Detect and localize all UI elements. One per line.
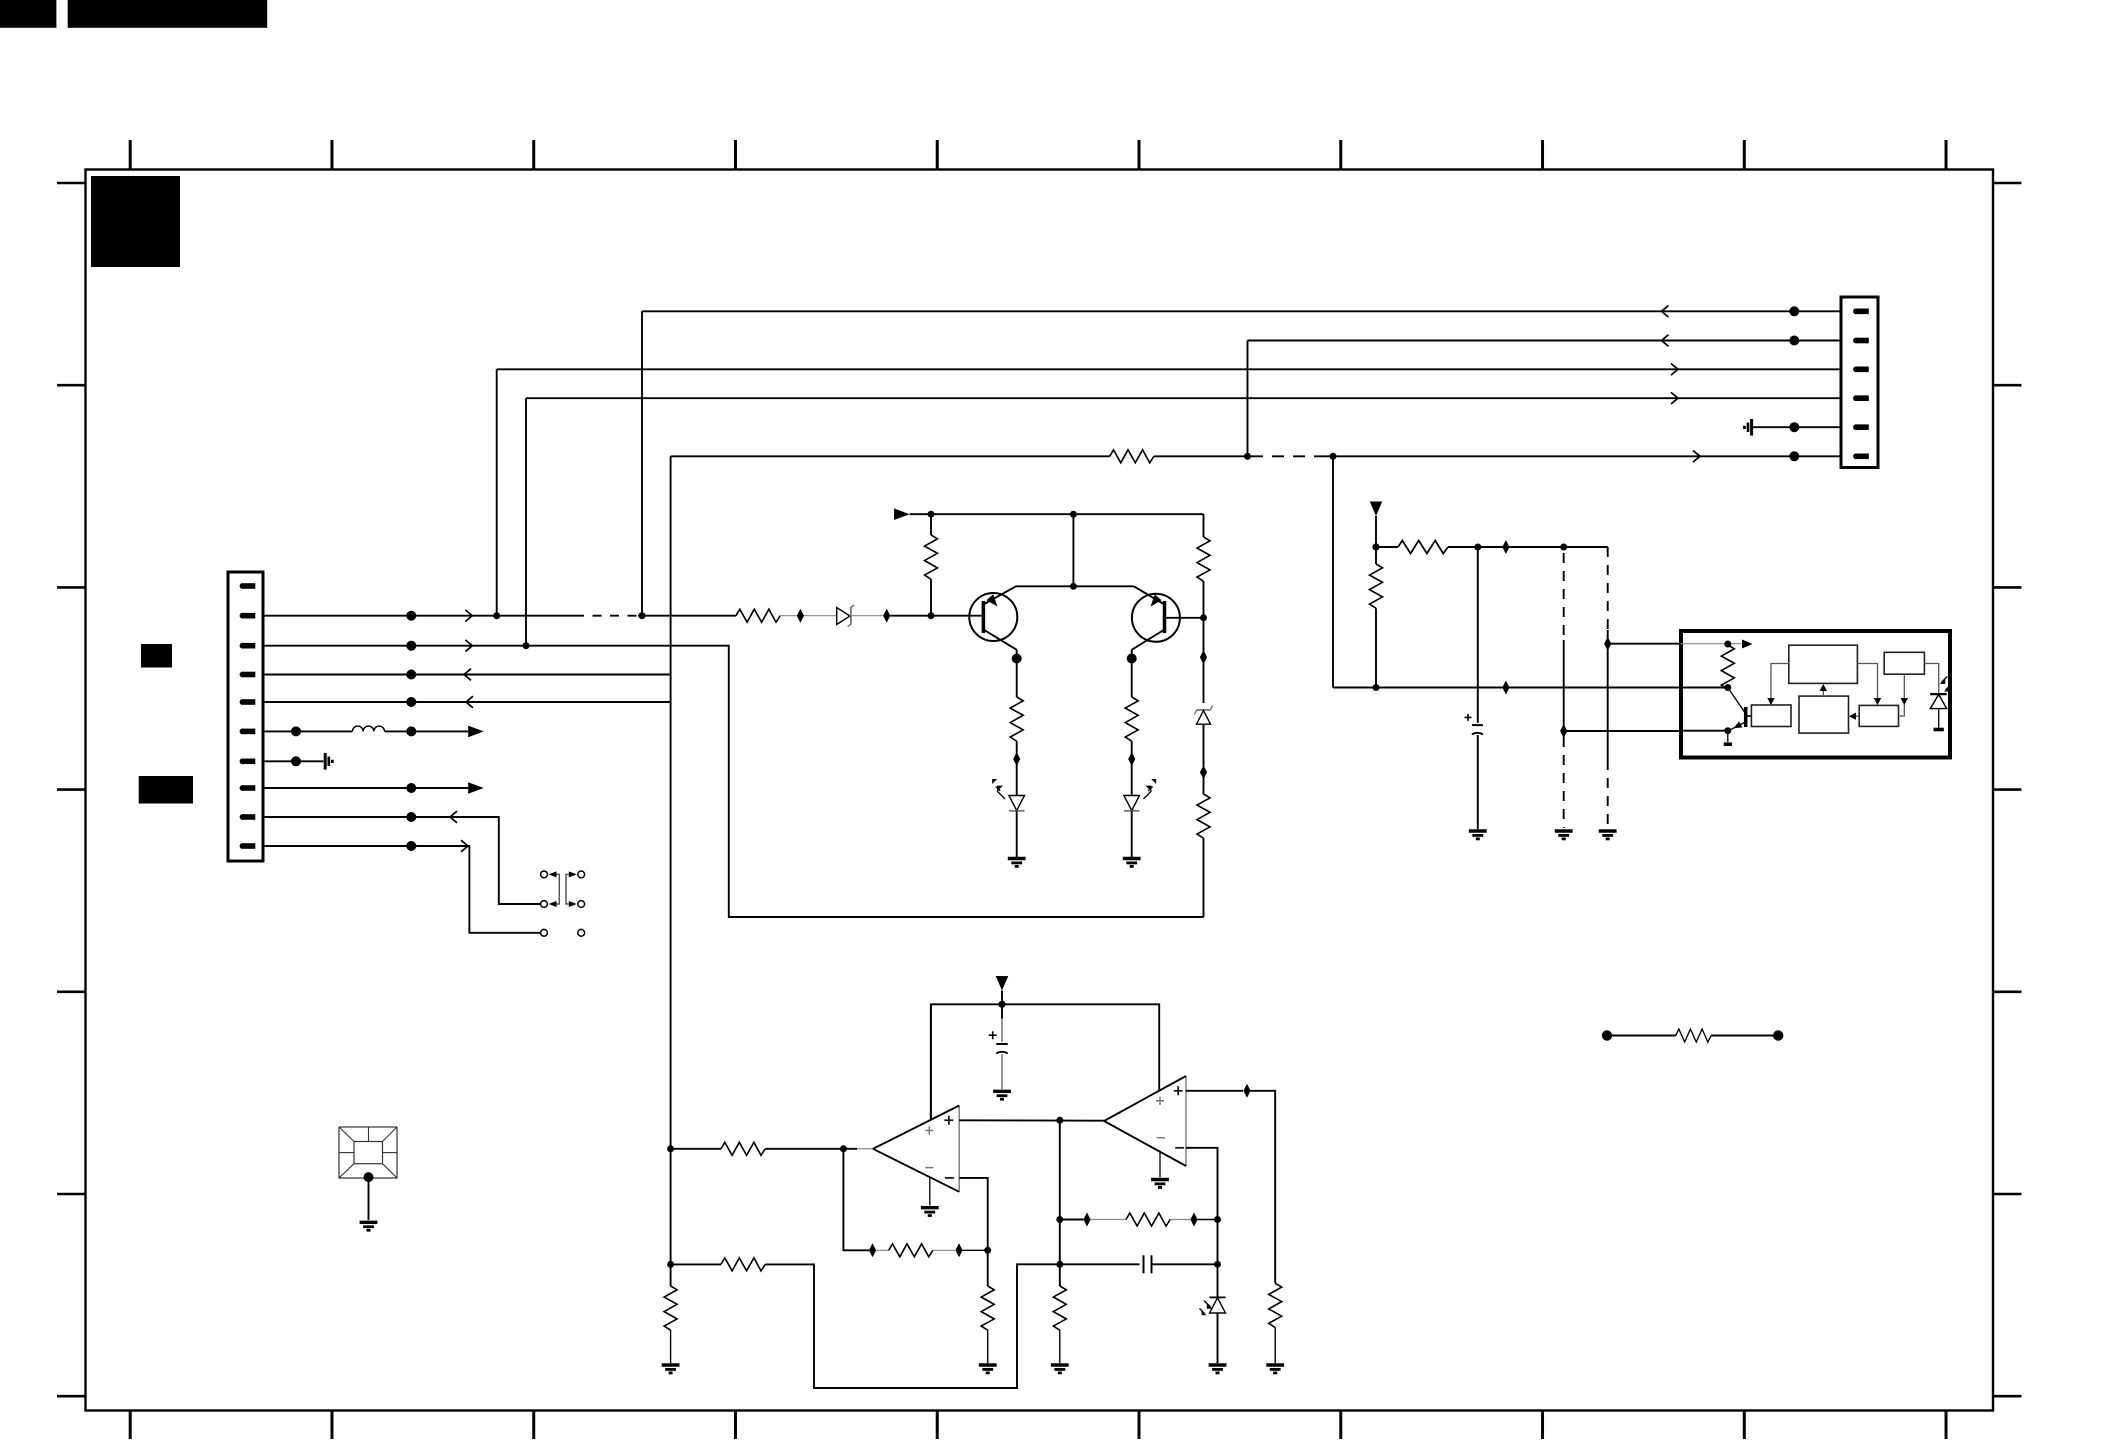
diamond on U2a +in [1243,1084,1250,1098]
LED D4 cathode bar [1124,810,1140,812]
wire C3 to -in riser [1152,1263,1218,1265]
resistor R6 (Q2 collector, vertical) [1125,697,1138,741]
IC U2 (opto module) outline [1681,631,1950,758]
connector J1 pin 10 [240,843,256,849]
wire J1 pin2 to node B1 [263,615,575,617]
wire rail to R8 [1376,546,1398,548]
power arrow right (pin8 supply) [468,782,484,794]
C1 top plate [996,1043,1007,1045]
shield gnd short bar [327,757,330,766]
border tick top 3 [532,140,535,170]
wire riser A2 (pin2 down to sense line) [1247,341,1249,457]
diamond junction after D1 [883,609,890,623]
black label box 1 (left of connector) [141,644,172,668]
border tick left 3 [57,586,86,589]
wire riser A1 (pin1 down to base line) [641,311,643,615]
resistor R17 (vertical to ground) [1269,1283,1282,1327]
resistor R8 (rail, horizontal) [1398,541,1448,554]
wire Q3 emitter to internal ground [1727,731,1729,742]
dot on pin6 wire [291,726,301,736]
block D inside U2 [1799,696,1849,733]
wire J2 pin2 long run [1248,340,1842,342]
dot X1 terminal [364,1172,374,1182]
diode D1 bar bottom tick [848,624,851,626]
Q2 base bar [1163,601,1167,633]
border tick bottom 3 [532,1411,535,1440]
zener D2 cathode bar [1197,709,1211,711]
wire R5 to LED D3 [1016,741,1018,795]
top-left header black bar 2 [68,0,268,28]
switch S1 right bracket with arrows [566,874,569,904]
ground (Q1 chain) [1008,859,1026,868]
connector J1 pin 2 [240,613,256,619]
wire opto feed line 2 y=731 [1564,730,1681,732]
op-amp U2a (points left) [1185,1076,1187,1166]
diamond on opto line [1502,681,1509,695]
power arrow right (pin6 supply) [468,726,484,738]
wire R1 to base node [930,579,932,616]
diamond U1a feedback [869,1243,876,1257]
dot on pin10 wire [406,841,416,851]
wire U1a feedback left leg [843,1149,869,1251]
wire X1 to ground [368,1177,370,1220]
border tick bottom 9 [1743,1411,1746,1440]
connector J1 pin 5 [240,699,256,705]
diamond net1 to opto line 2 [1560,724,1567,738]
wire U2a +in right [1186,1090,1243,1092]
border tick bottom 7 [1339,1411,1342,1440]
ground (U2a) [1151,1180,1169,1189]
wire supply to rail y=547 [1375,516,1377,564]
border tick top 5 [936,140,939,170]
connector J2 pin 2 [1853,338,1869,344]
dot on J2 pin1 wire [1789,306,1799,316]
junction U2 input node [1724,641,1731,648]
dot on J2 pin2 wire [1789,336,1799,346]
arrow left on J2 pin2 wire [1662,335,1669,347]
wire J1 pin6 to inductor L1 [263,730,352,732]
resistor R12 (U1a feedback) [889,1244,933,1257]
diamond below D2 [1200,765,1207,779]
photodiode D5 cathode bar [1930,693,1947,695]
wire D2 to R7 [1203,724,1205,794]
Q3 base stub to block C [1747,715,1751,717]
junction collector line / rail tie [1070,583,1077,590]
block C inside U2 [1751,705,1791,727]
wire J1 pin7 to shield ground [263,760,323,762]
resistor R7 (vertical) [1197,794,1210,838]
wire dashed net2 lower [1607,760,1609,828]
dot on pin2 wire [406,611,416,621]
wire R6 to LED D4 [1131,741,1133,795]
wire E left to D [1852,715,1859,717]
border tick top 8 [1541,140,1544,170]
Q3 emitter diagonal [1729,723,1745,731]
wire U1a +in to U2a output [959,1119,1104,1121]
border tick bottom 10 [1945,1411,1948,1440]
internal ground bar U2 [1724,742,1732,746]
connector J1 (left, 10-pin) [228,572,263,861]
wire A to E elbow [1857,664,1877,701]
arrow right on J2 pin4 wire [1671,392,1678,404]
Q1 collector diagonal [983,630,1016,650]
wire net1 solid middle [1563,640,1565,737]
diamond on rail [1502,540,1509,554]
resistor R15 (vertical to ground) [1053,1286,1066,1330]
junction cap line / -in riser [1214,1261,1221,1268]
border tick left 6 [57,1193,86,1196]
Q2 collector diagonal [1132,630,1165,650]
connector J1 pin 4 [240,672,256,678]
border tick bottom 8 [1541,1411,1544,1440]
junction pin3 wire / riser A4 [523,642,530,649]
border tick bottom 1 [129,1411,132,1440]
arrow right on J2 pin6 wire [1693,451,1700,463]
ground (Q2 chain) [1123,859,1141,868]
photodiode D6 cathode bar [1210,1296,1226,1298]
wire rail to R1 [930,514,932,535]
resistor R13 (U2a feedback) [1126,1213,1170,1226]
border tick top 10 [1945,140,1948,170]
Q3 collector diagonal [1728,688,1745,713]
power arrow right (transistor rail supply) [894,508,910,520]
wire opto feed line y=687 [1333,687,1681,689]
border tick left 5 [57,990,86,993]
wire divider riser [1059,1120,1061,1286]
connector J2 pin 1 [1853,308,1869,314]
wire D6 to ground [1217,1313,1219,1363]
connector J1 pin 6 [240,729,256,735]
connector J1 pin 3 [240,643,256,649]
wire U2a feedback left [1060,1219,1084,1221]
wire dashed net1 upper [1563,553,1565,640]
transistor Q2 (PNP, mirrored) [1132,594,1180,642]
junction feedback / -in riser [1214,1216,1221,1223]
ground (U1a) [921,1208,939,1217]
power arrow down (opto rail supply) [1370,502,1383,517]
border tick top 7 [1339,140,1342,170]
border tick right 1 [1993,182,2022,185]
wire C1 to ground [1001,1054,1003,1089]
wire R9 down to opto line [1375,608,1377,687]
wire op-amp V+ rail [931,1004,1159,1119]
junction +in line / divider [1056,1117,1063,1124]
Q2 emitter diagonal [1134,586,1165,604]
wire photodiode to terminal [1938,709,1940,728]
shield gnd tall bar [1750,419,1753,436]
junction riser A6 / R11 [667,1145,674,1152]
wire B to photodiode [1924,664,1938,695]
ground (R15) [1051,1365,1069,1374]
dot on pin8 wire [406,783,416,793]
wire J2 pin4 long run [526,397,1841,399]
diode D1 bar top tick [851,605,854,607]
resistor R19 (riser A6 to ground, vertical) [664,1286,677,1330]
test point dot left [1602,1030,1612,1040]
wire J1 pin3 loop to Q2 network bottom [263,646,1204,917]
wire U2a ground pin [1159,1152,1161,1178]
wire -in node down to R14 [987,1250,989,1286]
connector J2 pin 5 [1853,424,1869,430]
zener D2 bar right tick [1210,706,1212,710]
ground (net2) [1599,831,1617,840]
arrow left on pin4 wire [464,669,471,681]
ground (R14) [979,1365,997,1374]
resistor R3 (base series) [736,609,780,622]
junction rail / R1 top [928,511,935,518]
diamond U2a feedback right [1190,1213,1197,1227]
ground (C2) [1469,831,1487,840]
junction pin6 line / riser A2 [1244,453,1251,460]
junction U2 transistor collector node [1724,684,1731,691]
junction divider / cap line [1056,1261,1063,1268]
wire U1a V+ pin [930,1004,932,1119]
ground (riser A6) [662,1365,680,1374]
black label box 2 (left of connector) [139,776,193,804]
border tick top 2 [330,140,333,170]
X1 diagonal TR [383,1127,398,1142]
arrow left on pin5 wire [466,696,473,708]
dot on pin4 wire [406,670,416,680]
transistor Q1 (PNP) [969,593,1017,641]
border tick right 4 [1993,788,2022,791]
arrow right on J2 pin3 wire [1671,364,1678,376]
wire D1 to diamond [851,615,883,617]
junction pin2 wire / riser A1 [639,612,646,619]
op-amp U1a (points left) [958,1106,960,1192]
wire riser A6 to R11 [671,1148,721,1150]
resistor R16 (horizontal) [721,1258,765,1271]
arrow right on pin3 wire [465,640,472,652]
connector J2 pin 3 [1853,366,1869,372]
diamond on Q1 chain [1013,752,1020,766]
junction riser A6 / R16 line [667,1261,674,1268]
shield gnd square [331,760,334,763]
wire dashed segment on pin6 line [1258,455,1326,457]
drawing frame border [86,170,1994,1411]
connector J2 (top right, 6-pin) [1841,297,1878,468]
ground (D6) [1209,1365,1227,1374]
ground (net1) [1555,831,1573,840]
junction feedback / -in riser [984,1247,991,1254]
wire riser A6 (pin6 line down to op-amp input) [670,456,672,1149]
connector J2 pin 4 [1853,395,1869,401]
wire R4 left to riser A6 [671,455,1110,457]
junction pin6 line / riser to opto feed [1330,453,1337,460]
resistor R11 (U1a input) [721,1142,765,1155]
dot below Q2 [1127,654,1137,664]
wire B down to E [1899,674,1905,716]
Q1 base bar [982,601,986,633]
wire J2 pin5 to shield ground [1752,426,1841,428]
Q3 base bar [1744,707,1748,727]
border tick left 4 [57,788,86,791]
wire rail to C2 [1477,547,1479,723]
switch S1 contacts [541,871,548,878]
ground (R17) [1266,1365,1284,1374]
wire riser A6 lower segment [670,1149,672,1286]
wire U2a +in down to R17 [1251,1091,1276,1284]
dot on pin3 wire [406,641,416,651]
wire dashed net1 lower [1563,737,1565,828]
diamond U1a feedback right [955,1243,962,1257]
capacitor C1 (polarized, rail decoupling) [1001,1019,1003,1042]
wire U1a ground pin [929,1178,931,1206]
X1 diagonal BR [383,1164,398,1178]
test point dot right [1773,1030,1783,1040]
dot on pin9 wire [406,812,416,822]
photodiode terminal bar [1934,728,1944,732]
LED D3 cathode bar [1009,810,1025,812]
dot on J2 pin5 wire [1789,422,1799,432]
wire U2a -in down [1186,1148,1218,1220]
U1a output stub [857,1148,873,1150]
border tick right 3 [1993,586,2022,589]
X1 top mid line [368,1127,370,1142]
connector J1 pin 9 [240,814,256,820]
connector J2 pin 6 [1853,453,1869,459]
junction rail / collector tie [1070,511,1077,518]
shield gnd square [1743,426,1746,429]
switch S1 left bracket with arrows [557,874,560,904]
wire dashed segment on pin2 line [575,615,638,617]
block B inside U2 [1884,652,1924,674]
connector J1 pin 7 [240,758,256,764]
junction U2 emitter node [1724,727,1731,734]
wire J1 pin8 to power arrow [263,787,468,789]
ground (C1) [993,1091,1011,1100]
wire Q2 collector down [1131,650,1133,697]
zener D2 bar left tick [1195,710,1197,714]
border tick right 2 [1993,384,2022,387]
Q1 emitter diagonal [983,586,1016,604]
wire R3 to diamond [780,615,797,617]
junction U1a input node [840,1145,847,1152]
dot on pin7 wire [291,756,301,766]
wire Q1 collector down [1016,650,1018,697]
dot after L1 [406,726,416,736]
junction base wire / R1 bottom [928,612,935,619]
wire rail corner down to R2 [1203,514,1205,537]
dot below Q1 [1012,654,1022,664]
border tick bottom 5 [936,1411,939,1440]
junction op-amp rail node [998,1001,1005,1008]
junction opto line / R9 [1373,684,1380,691]
border tick top 6 [1138,140,1141,170]
X1 diagonal BL [339,1164,354,1178]
wire riser A3 (pin3 down) [496,369,498,615]
junction pin2 wire / riser A3 [493,612,500,619]
wire R11 to U1a output node [765,1148,857,1150]
X1 right mid line [383,1152,398,1154]
shield gnd tall bar [324,753,327,770]
connector J1 pin 1 [240,583,256,589]
resistor R10 inside U2 (vertical) [1721,645,1734,689]
border tick top 9 [1743,140,1746,170]
wire R18 to test point [1711,1035,1778,1037]
wire inside U2 input 1 [1681,687,1728,689]
LED D3 [1009,796,1025,811]
wire J2 pin1 long run [642,310,1841,312]
wire riser A4 (pin4 down) [525,398,527,646]
shield gnd short bar [1747,423,1750,432]
diode D1 cathode bar [850,607,852,625]
junction feedback / divider riser [1056,1216,1063,1223]
resistor R14 (vertical to ground) [981,1286,994,1330]
wire J1 pin9 to switch S1 [263,817,541,904]
wire riser A6 to R16 [671,1263,721,1265]
border tick right 6 [1993,1193,2022,1196]
border tick left 2 [57,384,86,387]
X1 diagonal TL [339,1127,354,1142]
diamond junction on base line [797,609,804,623]
wire to Q1 base [890,615,981,617]
wire J2 pin3 long run [497,368,1841,370]
LED D4 [1124,796,1140,811]
wire L1 to power arrow [385,730,469,732]
wire rail R8 to corner [1448,546,1608,548]
arrow left on J2 pin1 wire [1662,306,1669,318]
wire R7 down to bottom loop [1203,838,1205,917]
border tick bottom 2 [330,1411,333,1440]
inductor L1 [352,726,384,731]
wire riser from pin6 line down to opto line [1332,456,1334,687]
wire R16 Z-path to cap line [765,1264,1060,1388]
resistor R9 (vertical below supply) [1370,564,1383,608]
wire A to C elbow [1771,664,1789,701]
junction supply rail node [1372,543,1379,550]
border tick left 7 [57,1395,86,1398]
wire U1a -in down [959,1178,988,1250]
top-left header black bar 1 [0,0,56,28]
dot on J2 pin6 wire [1789,451,1799,461]
diode D1 (series, zener) [837,608,850,625]
diamond net2 to opto line 0 [1604,637,1611,651]
wire dashed net2 upper [1607,547,1609,630]
dot on pin5 wire [406,697,416,707]
wire inside U2 input 0 [1681,643,1724,645]
wire J1 pin10 to switch S1 [263,846,541,933]
wire collector line Q1-Q2 [1016,585,1134,587]
wire diamond to diode D1 [804,615,837,617]
wire LED D3 to ground [1016,811,1018,859]
power arrow down (op-amp rail supply) [996,976,1009,991]
wire net2 solid middle [1607,630,1609,760]
junction rail / dashed branch 1 [1560,544,1567,551]
diamond U2a feedback left [1083,1213,1090,1227]
wire J2 pin6 long run [1326,455,1841,457]
C3 left plate [1143,1255,1145,1273]
diamond on Q2 base chain [1200,650,1207,664]
ground (X1) [360,1222,378,1231]
arrow stub inside U2 [1742,640,1753,649]
border tick top 4 [734,140,737,170]
wire supply arrow down to rail [1001,991,1003,1019]
wire to R18 [1607,1035,1676,1037]
wire pin6 line to R4 [1154,455,1258,457]
resistor R4 (sense line) [1110,450,1154,463]
wire D up to A [1822,687,1824,696]
junction rail / C2 branch [1474,544,1481,551]
resistor R1 (Q1 bias, vertical) [925,535,938,579]
arrow left on pin9 wire [450,811,457,823]
wire supply rail y=514 [910,513,1204,515]
block A inside U2 [1789,645,1858,683]
border tick left 1 [57,182,86,185]
border tick right 5 [1993,990,2022,993]
wire R2 to zener D2 [1203,581,1205,703]
block E inside U2 [1859,705,1898,726]
